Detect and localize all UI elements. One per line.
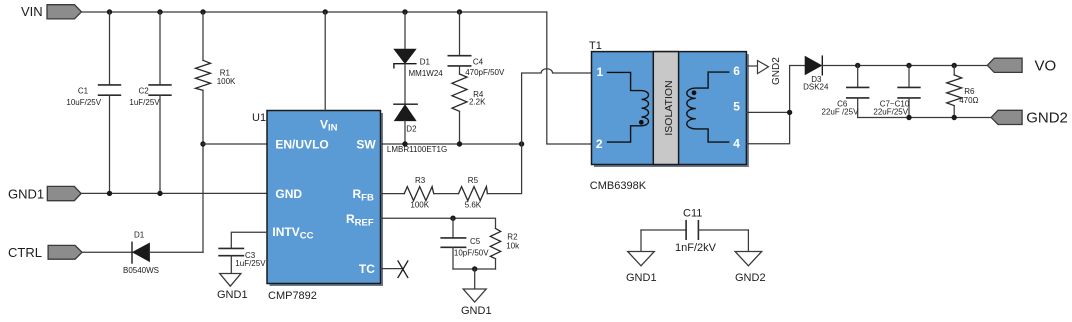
svg-text:EN/UVLO: EN/UVLO: [275, 137, 328, 151]
ground GND1 under C5: [461, 269, 492, 317]
svg-text:C1: C1: [78, 86, 89, 95]
ground GND1 at C11: [626, 230, 657, 284]
node GND1-C1 junction: [107, 191, 112, 196]
wire R5 up to SW node: [487, 144, 521, 194]
node SW-D2 junction: [402, 141, 407, 146]
svg-text:10k: 10k: [506, 242, 520, 251]
capacitor C3: [219, 248, 266, 273]
svg-text:DSK24: DSK24: [803, 83, 829, 92]
svg-text:GND2: GND2: [771, 57, 782, 85]
svg-text:GND1: GND1: [626, 272, 657, 284]
node VIN-C2 junction: [157, 9, 162, 14]
isolation band: [653, 52, 678, 165]
terminal GND2: [991, 109, 1068, 126]
node GND1-C2 junction: [157, 191, 162, 196]
svg-text:1uF/25V: 1uF/25V: [235, 259, 266, 268]
diode D2 LMBR1100ET1G: [387, 104, 447, 154]
ground GND2 at C11: [735, 230, 766, 284]
node VIN-C4 junction: [457, 9, 462, 14]
transformer T1 CMB6398K: [589, 40, 749, 192]
secondary winding: [687, 72, 729, 142]
zener diode D1 MM1W24: [394, 12, 443, 104]
svg-text:6: 6: [733, 64, 740, 78]
node VO-C6 junction: [855, 63, 860, 68]
svg-text:100K: 100K: [217, 77, 236, 86]
terminal GND1: [8, 186, 81, 201]
svg-text:ISOLATION: ISOLATION: [663, 80, 675, 135]
svg-text:22uF /25V: 22uF /25V: [822, 107, 860, 116]
svg-text:1uF/25V: 1uF/25V: [129, 98, 160, 107]
resistor R6: [947, 66, 979, 118]
svg-text:SW: SW: [356, 137, 376, 151]
resistor R3: [381, 176, 434, 210]
svg-text:GND1: GND1: [8, 186, 44, 201]
svg-text:GND2: GND2: [1026, 109, 1068, 126]
IC U1 CMP7892: [252, 111, 383, 303]
svg-text:B0540WS: B0540WS: [123, 266, 159, 275]
svg-text:D1: D1: [134, 231, 145, 240]
svg-text:22uF/25V: 22uF/25V: [873, 107, 908, 116]
primary winding: [608, 72, 649, 142]
svg-text:MM1W24: MM1W24: [409, 69, 444, 78]
node GND2-R6 junction: [952, 115, 957, 120]
svg-text:R5: R5: [468, 176, 479, 185]
svg-text:T1: T1: [589, 40, 602, 52]
wire D1 to EN/UVLO vertical: [149, 251, 203, 253]
svg-text:VIN: VIN: [21, 4, 43, 19]
wire VIN rail top: [81, 11, 546, 13]
svg-text:5.6K: 5.6K: [465, 201, 482, 210]
wire VIN vertical to T1 pin2: [547, 12, 592, 144]
wire INTVCC to C3: [231, 232, 267, 248]
wire C5-R2 bottom: [453, 268, 496, 270]
svg-text:U1: U1: [252, 112, 266, 124]
svg-text:CMB6398K: CMB6398K: [590, 180, 647, 192]
svg-text:2.2K: 2.2K: [469, 98, 486, 107]
wire U1 VIN pin: [324, 12, 326, 111]
svg-text:D2: D2: [406, 124, 417, 133]
svg-text:CMP7892: CMP7892: [268, 290, 317, 302]
net arrow GND2 at pin6: [758, 57, 783, 85]
diode D1 B0540WS: [123, 231, 159, 275]
wire EN/UVLO: [203, 143, 267, 145]
terminal VO: [987, 57, 1056, 74]
capacitor C4: [448, 12, 505, 77]
node GND2-C7 junction: [906, 115, 911, 120]
node GND stub junction: [472, 266, 477, 271]
primary phase dot: [639, 120, 644, 125]
svg-text:GND1: GND1: [461, 305, 492, 317]
node VIN-R1 junction: [200, 9, 205, 14]
wire T1 pin6 stub: [746, 65, 757, 67]
wire SW to T1 pin1 with hop: [522, 69, 592, 144]
wire R3-R5: [434, 193, 459, 195]
wire SW line: [381, 143, 522, 145]
capacitor C11: [641, 208, 748, 255]
svg-text:TC: TC: [359, 262, 375, 276]
wire CTRL to D1: [82, 251, 132, 253]
node RREF-C5 junction: [450, 216, 455, 221]
diode D3 DSK24: [803, 56, 829, 91]
resistor R2: [490, 228, 520, 269]
svg-text:GND: GND: [275, 187, 302, 201]
svg-text:C4: C4: [473, 58, 484, 67]
node R1-EN/UVLO junction: [200, 141, 205, 146]
node VO-R6 junction: [952, 63, 957, 68]
svg-text:10pF/50V: 10pF/50V: [454, 249, 489, 258]
node SW-T1 junction: [519, 141, 524, 146]
secondary phase dot: [692, 90, 697, 95]
node VO-C7 junction: [906, 63, 911, 68]
terminal VIN: [21, 4, 81, 19]
wire output top rail: [822, 65, 987, 67]
svg-text:4: 4: [733, 137, 740, 151]
capacitor C2: [129, 12, 171, 193]
capacitor C1: [66, 12, 120, 193]
resistor R4: [452, 74, 486, 144]
svg-text:VO: VO: [1035, 57, 1057, 74]
svg-text:1: 1: [597, 65, 604, 79]
wire T1 pin5 stub: [746, 111, 789, 113]
node VIN-U1 junction: [323, 9, 328, 14]
node VIN-D1 junction: [402, 9, 407, 14]
resistor R1: [196, 12, 237, 252]
wire GND1 to U1: [81, 192, 267, 194]
svg-text:1nF/2kV: 1nF/2kV: [675, 242, 717, 254]
node VIN-C1 junction: [107, 9, 112, 14]
svg-text:GND2: GND2: [735, 272, 766, 284]
svg-text:C5: C5: [470, 237, 481, 246]
ground GND1 under C3: [217, 274, 248, 302]
terminal CTRL: [8, 245, 82, 260]
svg-text:470Ω: 470Ω: [959, 96, 978, 105]
resistor R5: [459, 176, 488, 210]
svg-text:LMBR1100ET1G: LMBR1100ET1G: [387, 145, 447, 154]
svg-text:R6: R6: [964, 87, 975, 96]
capacitor C5: [441, 218, 489, 269]
svg-text:5: 5: [733, 100, 740, 114]
node pin5-pin4 junction: [787, 110, 792, 115]
svg-text:C11: C11: [683, 208, 702, 220]
wire RREF line: [381, 218, 496, 228]
svg-text:100K: 100K: [410, 201, 429, 210]
svg-text:470pF/50V: 470pF/50V: [465, 68, 505, 77]
wire T1 pin4 stub: [746, 66, 805, 144]
svg-text:2: 2: [596, 137, 603, 151]
svg-text:GND1: GND1: [217, 289, 248, 301]
svg-text:10uF/25V: 10uF/25V: [66, 98, 101, 107]
capacitor C6: [822, 66, 869, 118]
svg-text:R2: R2: [507, 233, 518, 242]
svg-text:C2: C2: [139, 86, 150, 95]
capacitor C7~C10: [873, 66, 920, 118]
svg-text:CTRL: CTRL: [8, 245, 42, 260]
wire output bottom rail: [858, 117, 991, 119]
svg-text:D1: D1: [420, 57, 431, 66]
node SW-R4 junction: [457, 141, 462, 146]
svg-text:R3: R3: [415, 176, 426, 185]
pin TC no-connect X: [381, 261, 408, 278]
